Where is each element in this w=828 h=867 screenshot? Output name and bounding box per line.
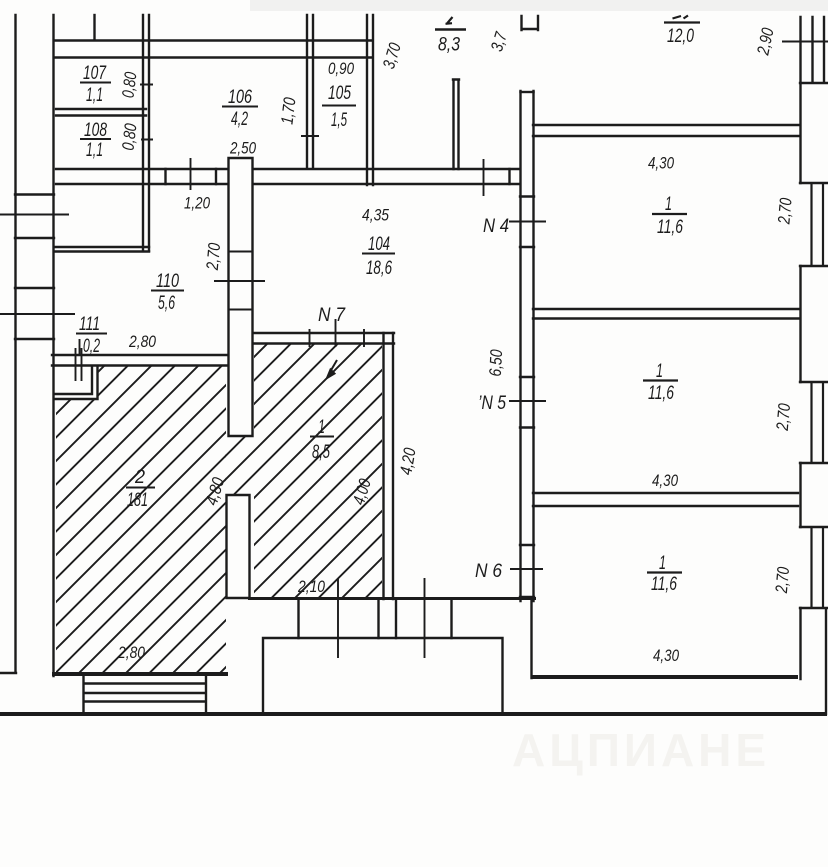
- svg-text:5,6: 5,6: [158, 292, 175, 314]
- svg-text:11,6: 11,6: [657, 216, 683, 238]
- room 1 top band: [252, 333, 394, 344]
- right outer wall segments: [799, 17, 801, 679]
- lower column piece: [227, 495, 250, 598]
- room 108 label: [80, 119, 111, 161]
- svg-text:104: 104: [368, 233, 390, 255]
- column divisions: [229, 252, 253, 310]
- bottom right outer corner: [825, 610, 827, 714]
- svg-text:’N 5: ’N 5: [478, 392, 506, 414]
- wall N5|N6: [533, 493, 798, 506]
- svg-text:11,6: 11,6: [651, 573, 677, 595]
- wall 105 right pair: [367, 15, 373, 185]
- svg-text:1,1: 1,1: [86, 139, 103, 161]
- svg-text:1,20: 1,20: [184, 194, 210, 213]
- column center (white over bands): [229, 158, 253, 436]
- stairwell U stub: [522, 16, 539, 30]
- svg-text:107: 107: [83, 62, 107, 84]
- svg-text:2,70: 2,70: [772, 566, 793, 595]
- entrance arrow room1: [327, 360, 337, 378]
- porch dimension ticks: [338, 578, 425, 658]
- watermark: [512, 724, 770, 776]
- svg-text:0,80: 0,80: [118, 122, 140, 152]
- jamb x509: [508, 169, 510, 184]
- svg-text:1,5: 1,5: [331, 109, 347, 131]
- closet 111 right/bottom doubles: [55, 366, 98, 399]
- svg-text:АЦПИАНЕ: АЦПИАНЕ: [512, 724, 770, 776]
- ground line: [0, 712, 827, 716]
- svg-text:2: 2: [134, 466, 145, 488]
- wall N4|N5: [533, 309, 799, 319]
- svg-text:4,35: 4,35: [362, 206, 389, 225]
- thin ticks and dimension lines: [0, 42, 828, 659]
- svg-text:0,80: 0,80: [118, 70, 140, 99]
- 105/106 door tick: [301, 135, 319, 137]
- closet bottom double: [55, 247, 149, 252]
- 0,80 ticks: [140, 85, 153, 140]
- top right corner window: [800, 17, 828, 83]
- N7 tick: [335, 319, 337, 347]
- svg-text:2,70: 2,70: [203, 242, 224, 272]
- svg-text:1,1: 1,1: [86, 84, 103, 106]
- porch step verticals: [299, 599, 452, 638]
- svg-text:2,70: 2,70: [773, 402, 794, 432]
- hatched room 1 (8,5): [254, 343, 382, 597]
- corridor wall door jambs: [520, 197, 534, 598]
- svg-text:110: 110: [156, 270, 179, 292]
- stair label 8,3: [435, 17, 466, 56]
- svg-text:12,0: 12,0: [667, 25, 694, 47]
- room N6 labels: [647, 552, 682, 595]
- svg-text:1,70: 1,70: [277, 96, 299, 126]
- left edge long ticks: [0, 215, 75, 315]
- svg-text:18,6: 18,6: [366, 257, 392, 279]
- svg-text:2,80: 2,80: [128, 332, 156, 351]
- svg-text:105: 105: [328, 82, 351, 104]
- svg-text:2,10: 2,10: [297, 577, 325, 596]
- svg-text:N 6: N 6: [475, 560, 502, 582]
- door tick x483: [483, 159, 485, 196]
- room N4 labels: [648, 154, 687, 239]
- room 106 label: [222, 86, 258, 130]
- svg-text:8,3: 8,3: [438, 34, 460, 56]
- wall 107/108 right pair (continues to closet): [143, 15, 149, 251]
- left outer wall outer line: [14, 15, 16, 672]
- room 1 right wall pair: [384, 333, 394, 599]
- corridor wall left line: [519, 91, 521, 601]
- svg-text:108: 108: [84, 119, 107, 141]
- 2,90 tick top right: [782, 41, 828, 43]
- window glazing N5: [812, 382, 824, 463]
- left wall bottom cap: [0, 672, 16, 674]
- room N5 labels: [643, 360, 678, 404]
- left outer wall inner line: [52, 15, 54, 676]
- svg-text:8,5: 8,5: [312, 441, 330, 463]
- hatched room 2: [56, 366, 226, 672]
- svg-text:6,50: 6,50: [486, 349, 506, 377]
- wall between 107 and 108: [56, 109, 146, 116]
- svg-text:1: 1: [665, 193, 672, 215]
- svg-text:4,30: 4,30: [653, 646, 679, 665]
- svg-text:4,2: 4,2: [231, 108, 248, 130]
- svg-text:2,50: 2,50: [229, 139, 256, 158]
- room 105 label: [322, 82, 356, 131]
- N6 bottom wall: [531, 675, 798, 679]
- left wall divisions: [15, 195, 54, 340]
- stub above band x94: [93, 15, 95, 40]
- svg-text:4,30: 4,30: [652, 471, 678, 490]
- svg-text:2,70: 2,70: [774, 197, 795, 226]
- room2 bottom wall: [52, 672, 228, 676]
- lower band (over room 104): [56, 169, 520, 184]
- hatched door gap between room2 and room1: [225, 436, 254, 494]
- room 2 label: [126, 466, 155, 511]
- svg-text:1: 1: [318, 416, 325, 438]
- room 2 top band: [52, 355, 228, 366]
- svg-text:181: 181: [127, 489, 148, 511]
- top band bottom line: [54, 56, 372, 58]
- svg-text:0,2: 0,2: [83, 335, 100, 357]
- room1 band jamb ticks: [310, 329, 365, 347]
- window glazing N6: [812, 527, 824, 608]
- room 110 label: [151, 270, 184, 314]
- chimney stub: [453, 80, 459, 170]
- closet 111 white box: [54, 366, 98, 399]
- svg-text:N 4: N 4: [483, 215, 509, 237]
- svg-text:1: 1: [659, 552, 666, 574]
- svg-text:N 7: N 7: [318, 304, 346, 326]
- svg-text:2,80: 2,80: [117, 643, 145, 662]
- porch rectangle: [263, 638, 503, 713]
- building bottom line under room1/corridor: [248, 597, 536, 600]
- door jambs 1,20: [166, 169, 217, 184]
- svg-text:4,30: 4,30: [648, 154, 674, 173]
- N6 left wall lower: [530, 599, 532, 678]
- corridor label 12,0: [664, 16, 700, 48]
- steps bottom-left: [84, 676, 207, 713]
- 2,70 tick crossing column: [214, 280, 265, 282]
- window glazing N4: [812, 183, 824, 266]
- wall 106|105 pair: [307, 15, 313, 167]
- svg-text:1: 1: [656, 360, 663, 382]
- room 1 label: [310, 416, 334, 463]
- svg-text:0,90: 0,90: [328, 59, 354, 78]
- thick lines: [0, 599, 827, 715]
- 1,20 door tick: [190, 158, 192, 190]
- corridor wall right line: [532, 91, 534, 601]
- window caps: [800, 183, 828, 608]
- svg-text:11,6: 11,6: [648, 382, 674, 404]
- room 111 label: [76, 313, 107, 357]
- corridor wall top cap: [521, 91, 534, 93]
- top band top line: [54, 39, 372, 41]
- svg-text:111: 111: [79, 313, 100, 335]
- svg-text:106: 106: [228, 86, 252, 108]
- room 104 label: [362, 206, 395, 280]
- N4 N5 N6 door ticks: [509, 222, 546, 570]
- closet 111 door ticks: [76, 339, 82, 381]
- room 107 label: [80, 62, 111, 106]
- corridor 12.0 bottom wall: [533, 125, 800, 136]
